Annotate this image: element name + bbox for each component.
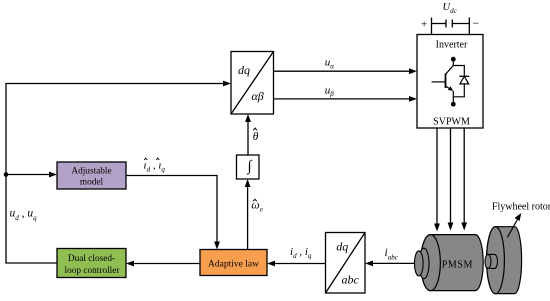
wire: controller feedback vertical (left): [6, 84, 224, 264]
wire: u_alpha to inverter: [274, 70, 410, 72]
svg-text:PMSM: PMSM: [442, 260, 473, 271]
svg-text:Dual closed-: Dual closed-: [68, 254, 115, 264]
wire: arrow into dq/alpha-beta block: [223, 81, 231, 87]
svg-text:Udc: Udc: [443, 2, 458, 15]
motor: PMSM body: [421, 235, 484, 291]
svg-text:−: −: [473, 16, 480, 30]
transistor: base lead: [432, 81, 446, 83]
svg-text:+: +: [421, 19, 427, 31]
diode: cathode bar: [459, 75, 469, 77]
wire: u_beta to inverter: [274, 98, 410, 100]
motor: left face ellipse: [421, 235, 441, 291]
transistor: bottom node: [451, 102, 456, 107]
block: integrator: [237, 155, 260, 179]
block: adjustable model: [57, 162, 126, 189]
shaft: motor to flywheel: [488, 254, 498, 268]
svg-text:uα: uα: [325, 57, 335, 71]
svg-text:ud , uq: ud , uq: [10, 207, 38, 222]
wire: i_dq from dq/abc to adaptive law: [275, 263, 326, 265]
wire: inverter phase b: [450, 128, 452, 224]
transistor: emitter lead with arrow: [446, 86, 453, 90]
block: dq/alpha-beta transform: [231, 52, 274, 115]
transistor: emitter wire to bottom node: [452, 91, 454, 104]
block: dual closed-loop controller: [57, 249, 126, 278]
wire: theta_hat from integrator to dq block: [247, 122, 249, 156]
svg-text:Adaptive law: Adaptive law: [208, 259, 259, 269]
svg-text:loop controller: loop controller: [65, 266, 121, 276]
svg-text:Inverter: Inverter: [436, 40, 468, 51]
svg-text:dq: dq: [238, 63, 250, 77]
svg-text:abc: abc: [342, 273, 360, 287]
svg-text:SVPWM: SVPWM: [433, 117, 470, 128]
svg-text:iabc: iabc: [385, 247, 399, 262]
node: junction on feedback line: [4, 172, 9, 177]
svg-text:id , iq: id , iq: [290, 246, 312, 260]
diode: triangle: [460, 76, 469, 84]
dc source: right wire: [452, 23, 469, 25]
wire: i_abc from motor to dq/abc: [373, 262, 420, 264]
svg-text:model: model: [80, 177, 104, 187]
wire: i_hat from adjustable model to adaptive law: [126, 176, 217, 243]
block: adaptive law: [200, 250, 267, 276]
wire: omega_hat from adaptive law to integrator: [247, 187, 249, 250]
dc source: right plate: [451, 20, 453, 28]
svg-text:Flywheel rotor: Flywheel rotor: [492, 202, 550, 213]
svg-text:dq: dq: [336, 240, 348, 254]
svg-text:ωe: ωe: [251, 198, 263, 214]
svg-text:θ: θ: [253, 131, 259, 143]
dc source: right post: [468, 18, 470, 36]
wire: inverter phase c: [463, 128, 465, 224]
transistor: collector lead: [446, 61, 454, 74]
motor: end cap ellipse: [415, 251, 424, 276]
svg-text:ıd , ıq: ıd , ıq: [144, 160, 166, 174]
svg-text:Adjustable: Adjustable: [71, 167, 111, 177]
dc source: left post: [431, 18, 433, 36]
callout arrow to flywheel label: [507, 219, 518, 238]
block: dq/abc transform: [326, 233, 366, 294]
motor: front housing ellipse: [419, 248, 429, 278]
block: inverter: [417, 35, 483, 129]
wire: adaptive law to controller: [134, 263, 201, 265]
dc source: left plate: [445, 20, 447, 28]
svg-text:αβ: αβ: [252, 89, 264, 103]
wire: inverter phase a: [436, 128, 438, 225]
transistor: IGBT top node: [451, 57, 456, 62]
diode: branch wire: [453, 66, 464, 77]
flywheel: body: [487, 227, 522, 294]
flywheel: left face ellipse: [487, 227, 505, 294]
svg-text:uβ: uβ: [325, 84, 335, 98]
dc source: left wire: [432, 23, 447, 25]
transistor: body bar: [445, 74, 447, 89]
wire: branch into adjustable model: [6, 174, 50, 176]
